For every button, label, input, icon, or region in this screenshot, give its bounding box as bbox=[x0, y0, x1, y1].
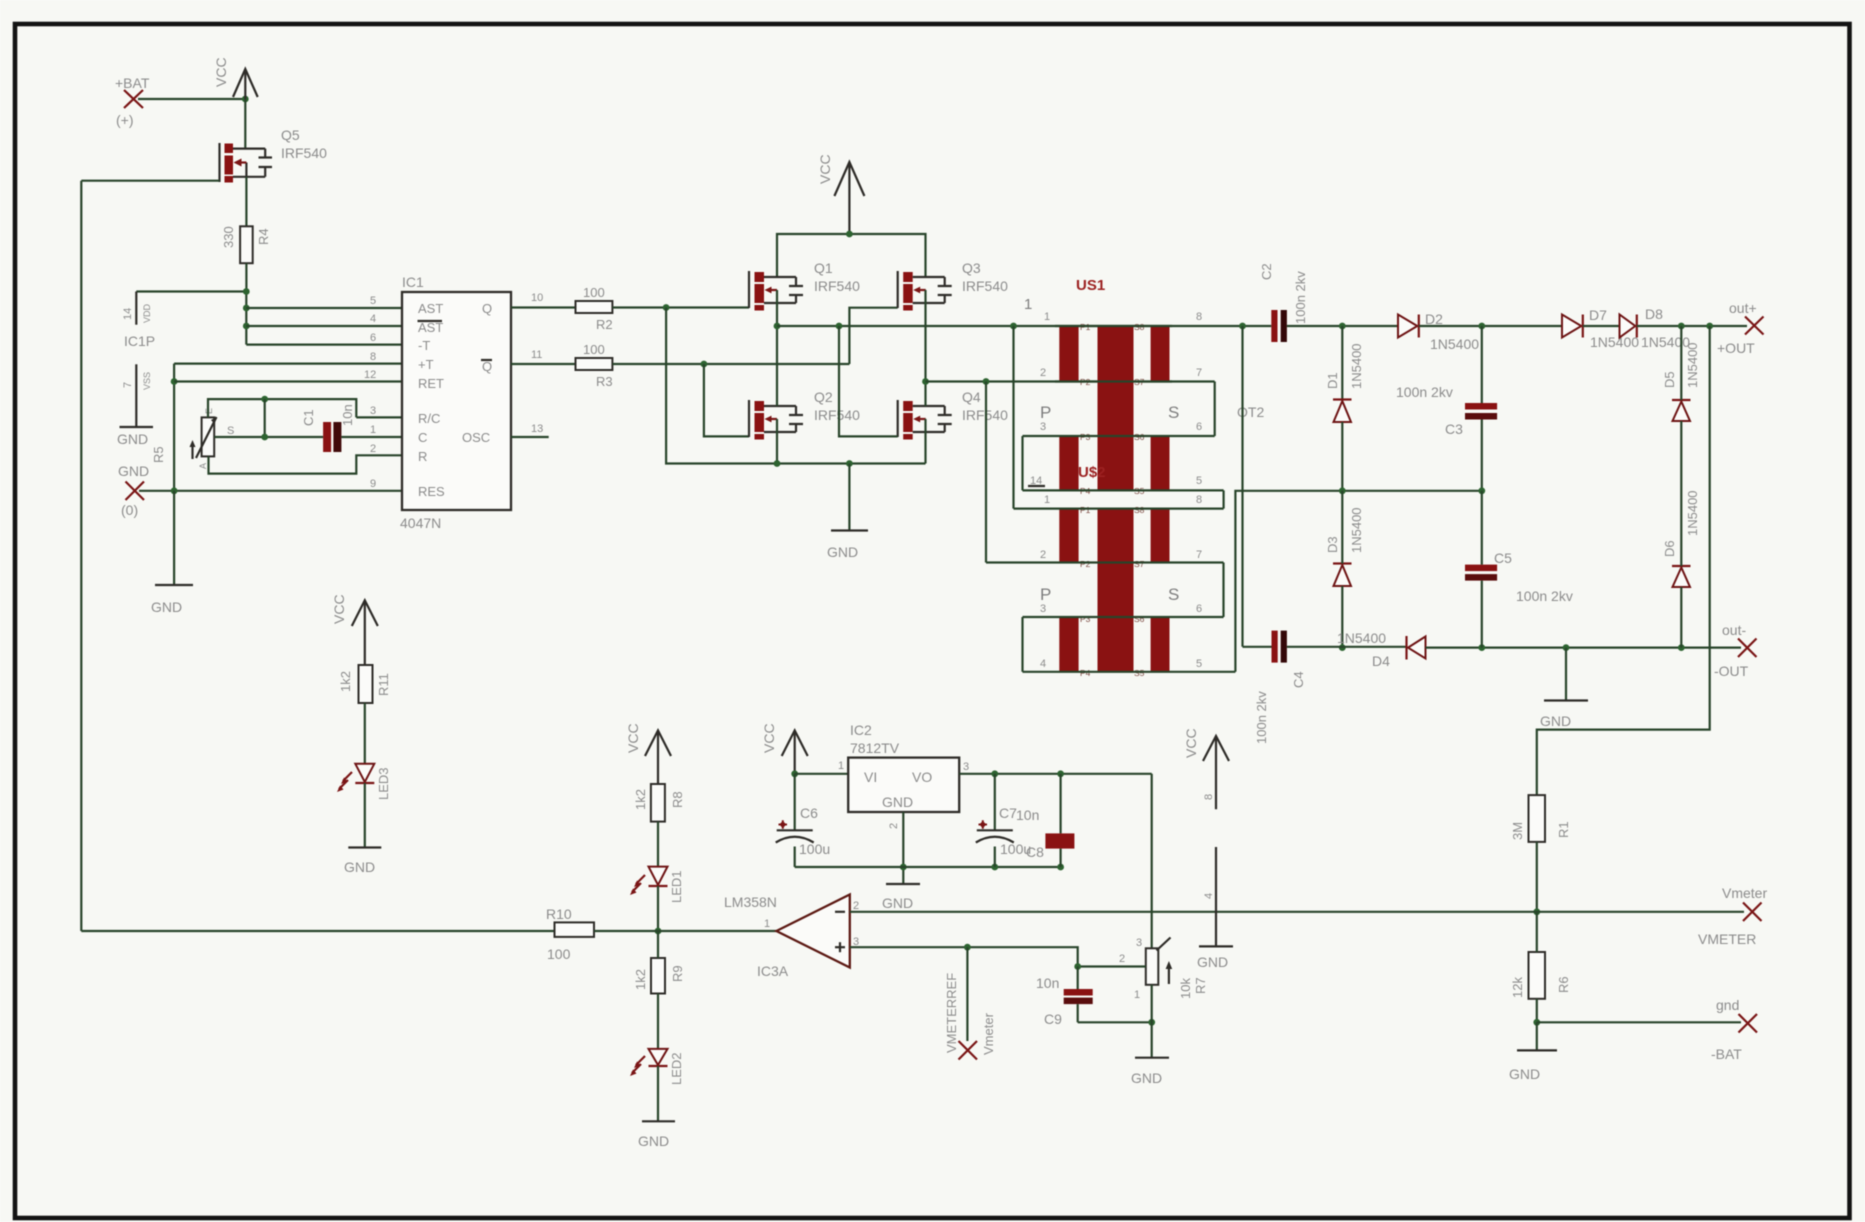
svg-text:1N5400: 1N5400 bbox=[1590, 334, 1639, 350]
svg-text:RES: RES bbox=[418, 484, 445, 499]
svg-text:10n: 10n bbox=[340, 404, 355, 426]
svg-text:GND: GND bbox=[117, 431, 148, 447]
svg-text:S8: S8 bbox=[1134, 505, 1145, 515]
wire vmeter row end bbox=[1537, 911, 1744, 913]
svg-text:P: P bbox=[1040, 403, 1051, 422]
wire U$2 row P3/S6 bbox=[1023, 616, 1224, 618]
wire gnd row bbox=[1537, 1021, 1741, 1023]
resistor R1 bbox=[1510, 795, 1571, 842]
wire R10 row left bbox=[81, 930, 554, 932]
wire VMETERREF stem bbox=[966, 947, 968, 1041]
ground (R6) bbox=[1509, 1050, 1557, 1082]
svg-text:Q: Q bbox=[482, 301, 492, 316]
svg-text:100n 2kv: 100n 2kv bbox=[1254, 691, 1269, 744]
svg-text:100: 100 bbox=[583, 285, 605, 300]
IC2 7812TV bbox=[848, 722, 959, 829]
svg-text:R3: R3 bbox=[596, 374, 613, 389]
capacitor C6 bbox=[776, 774, 830, 867]
svg-text:10: 10 bbox=[531, 292, 543, 304]
trimmer R5 bbox=[190, 408, 235, 469]
wire bottom rail (C6/C7/C8) bbox=[795, 866, 1061, 868]
svg-text:(+): (+) bbox=[116, 112, 134, 128]
transformer U$2 bbox=[1040, 464, 1202, 678]
wire phase A to second transformer bbox=[1012, 326, 1014, 509]
svg-text:1: 1 bbox=[1134, 989, 1140, 1001]
wire R3 to Q3 drive corner bbox=[612, 363, 849, 365]
svg-text:VMETERREF: VMETERREF bbox=[944, 973, 959, 1053]
svg-text:12: 12 bbox=[364, 369, 376, 381]
junction lower rail / gnd stem bbox=[846, 460, 853, 467]
wire IC1 pin 6 bbox=[246, 344, 402, 346]
svg-text:C6: C6 bbox=[800, 805, 818, 821]
svg-text:D2: D2 bbox=[1425, 311, 1443, 327]
wire R1 to vmeter row bbox=[1536, 842, 1538, 912]
svg-text:+T: +T bbox=[418, 357, 434, 372]
diode D4 bbox=[1337, 630, 1426, 669]
capacitor C5 bbox=[1465, 550, 1573, 604]
LED LED2 bbox=[630, 1049, 684, 1085]
svg-text:VCC: VCC bbox=[761, 723, 777, 753]
svg-text:LED2: LED2 bbox=[669, 1052, 684, 1085]
svg-text:VCC: VCC bbox=[625, 723, 641, 753]
svg-text:LED1: LED1 bbox=[669, 870, 684, 903]
svg-text:10n: 10n bbox=[1016, 807, 1039, 823]
svg-text:4: 4 bbox=[370, 313, 376, 325]
capacitor C1 bbox=[301, 404, 355, 452]
svg-text:IRF540: IRF540 bbox=[814, 407, 860, 423]
svg-text:Q4: Q4 bbox=[962, 389, 981, 405]
diode D3 bbox=[1325, 507, 1364, 586]
wire Q5 gate bbox=[81, 180, 219, 182]
svg-text:LM358N: LM358N bbox=[724, 894, 777, 910]
wire D8 to out+ bbox=[1637, 325, 1747, 327]
svg-text:GND: GND bbox=[882, 895, 913, 911]
node gnd / -BAT bbox=[1711, 997, 1757, 1062]
svg-text:1N5400: 1N5400 bbox=[1349, 343, 1364, 389]
svg-text:4047N: 4047N bbox=[400, 515, 441, 531]
resistor R3 bbox=[576, 342, 613, 389]
resistor R9 bbox=[633, 958, 685, 994]
svg-text:P2: P2 bbox=[1080, 559, 1091, 569]
svg-text:LED3: LED3 bbox=[376, 767, 391, 800]
wire op-amp pin 2 to VMETER bbox=[850, 911, 1537, 913]
svg-text:13: 13 bbox=[531, 423, 543, 435]
svg-text:6: 6 bbox=[370, 332, 376, 344]
svg-text:7: 7 bbox=[1196, 549, 1202, 561]
diode D1 bbox=[1325, 343, 1364, 422]
power VCC (IC2) bbox=[761, 723, 808, 773]
svg-text:Q: Q bbox=[482, 359, 492, 374]
svg-text:1N5400: 1N5400 bbox=[1685, 490, 1700, 536]
svg-text:-BAT: -BAT bbox=[1711, 1046, 1742, 1062]
wire trimmer top to R/C row bbox=[208, 399, 356, 417]
capacitor C3 bbox=[1396, 384, 1497, 437]
svg-text:S: S bbox=[1168, 585, 1179, 604]
svg-text:1: 1 bbox=[838, 760, 844, 772]
svg-text:GND: GND bbox=[344, 859, 375, 875]
wire Q5 source to R4 bbox=[245, 177, 247, 227]
svg-text:2: 2 bbox=[888, 823, 900, 829]
wire C4 row bbox=[1243, 646, 1407, 648]
svg-text:2: 2 bbox=[1119, 953, 1125, 965]
svg-text:7: 7 bbox=[1196, 367, 1202, 379]
svg-text:11: 11 bbox=[531, 349, 542, 361]
svg-text:R7: R7 bbox=[1193, 977, 1208, 994]
wire C2/C4 shared column bbox=[1241, 326, 1243, 647]
svg-text:330: 330 bbox=[221, 226, 236, 248]
svg-text:U$2: U$2 bbox=[1078, 464, 1106, 481]
svg-text:out+: out+ bbox=[1729, 300, 1757, 316]
svg-text:100u: 100u bbox=[799, 841, 830, 857]
svg-text:GND: GND bbox=[1197, 954, 1228, 970]
wire US1 S5 to U$2 S8 link bbox=[1222, 490, 1224, 508]
power VCC (top left) bbox=[213, 57, 258, 99]
svg-text:9: 9 bbox=[370, 478, 376, 490]
svg-text:C9: C9 bbox=[1044, 1011, 1062, 1027]
svg-text:GND: GND bbox=[827, 544, 858, 560]
wire +BAT to VCC column bbox=[138, 98, 245, 100]
wire vertical pins 8/12/9 bbox=[173, 364, 175, 491]
svg-text:+BAT: +BAT bbox=[115, 75, 150, 91]
svg-text:R4: R4 bbox=[256, 228, 271, 245]
svg-text:1N5400: 1N5400 bbox=[1337, 630, 1386, 646]
wire US1 S7-S6 link bbox=[1214, 382, 1216, 437]
wire phase B overlay across US1 bars bbox=[1055, 380, 1172, 382]
svg-text:R8: R8 bbox=[670, 791, 685, 808]
svg-text:8: 8 bbox=[1203, 794, 1215, 800]
wire D1 to mid row bbox=[1341, 422, 1343, 491]
node out+ bbox=[1717, 300, 1764, 356]
wire IC1 pin 11 to R3 bbox=[511, 363, 576, 365]
svg-text:3: 3 bbox=[1040, 603, 1046, 615]
svg-text:GND: GND bbox=[1540, 713, 1571, 729]
svg-text:VCC: VCC bbox=[1183, 728, 1199, 758]
diode D5 bbox=[1662, 342, 1700, 421]
svg-text:IC1P: IC1P bbox=[124, 333, 155, 349]
wire IC1 pin 9 (RES row) bbox=[139, 490, 402, 492]
svg-text:VO: VO bbox=[912, 769, 932, 785]
svg-text:7812TV: 7812TV bbox=[850, 740, 900, 756]
node +BAT bbox=[115, 75, 150, 128]
svg-text:R: R bbox=[418, 449, 427, 464]
resistor R11 bbox=[338, 665, 391, 703]
svg-text:D1: D1 bbox=[1325, 372, 1340, 389]
wire LED1 to junction bbox=[657, 886, 659, 931]
power VCC (bridge) bbox=[817, 154, 864, 234]
svg-text:Q3: Q3 bbox=[962, 260, 981, 276]
capacitor C2 bbox=[1259, 263, 1308, 342]
svg-text:3M: 3M bbox=[1510, 822, 1525, 840]
resistor R8 bbox=[633, 784, 685, 822]
ground (LED2) bbox=[638, 1121, 675, 1149]
capacitor C9 bbox=[1036, 967, 1093, 1028]
transistor Q5 bbox=[220, 127, 328, 183]
IC1P power pin VDD bbox=[122, 292, 155, 350]
power VCC (LM358) bbox=[1183, 728, 1229, 809]
svg-text:R5: R5 bbox=[151, 446, 166, 463]
svg-text:P1: P1 bbox=[1080, 505, 1091, 515]
svg-text:1N5400: 1N5400 bbox=[1349, 507, 1364, 553]
svg-text:gnd: gnd bbox=[1716, 997, 1739, 1013]
junction VI bbox=[791, 770, 798, 777]
wire VCC to IC2 VI bbox=[795, 773, 849, 775]
wire VDD row bbox=[136, 290, 246, 292]
wire to ground R6 bbox=[1536, 1022, 1538, 1050]
wire VCC to Q5 drain bbox=[244, 99, 246, 149]
svg-text:2: 2 bbox=[1040, 367, 1046, 379]
svg-text:R6: R6 bbox=[1556, 976, 1571, 993]
wire wiper row to C1 bbox=[214, 436, 323, 438]
transformer US1 bbox=[1024, 277, 1202, 496]
wire R8 to LED1 bbox=[657, 822, 659, 867]
svg-text:P4: P4 bbox=[1080, 668, 1091, 678]
svg-text:2: 2 bbox=[1040, 549, 1046, 561]
wire phase A overlay across US1 bars bbox=[1055, 325, 1172, 327]
svg-text:D4: D4 bbox=[1372, 653, 1390, 669]
wire D4 to out- bbox=[1426, 646, 1742, 648]
wire R4 to VDD row bbox=[245, 263, 247, 291]
svg-text:IC2: IC2 bbox=[850, 722, 872, 738]
svg-text:A: A bbox=[198, 463, 208, 469]
svg-text:100n 2kv: 100n 2kv bbox=[1516, 588, 1573, 604]
svg-text:1k2: 1k2 bbox=[338, 671, 353, 692]
svg-text:100n 2kv: 100n 2kv bbox=[1293, 271, 1308, 324]
svg-text:US1: US1 bbox=[1076, 277, 1105, 294]
svg-text:IRF540: IRF540 bbox=[814, 278, 860, 294]
junction trimmer top net bbox=[261, 396, 268, 403]
svg-text:S: S bbox=[227, 425, 234, 437]
wire D2 to D7 bbox=[1419, 325, 1562, 327]
svg-text:C2: C2 bbox=[1259, 263, 1274, 280]
svg-text:Q2: Q2 bbox=[814, 389, 833, 405]
svg-text:D3: D3 bbox=[1325, 536, 1340, 553]
diode D8 bbox=[1620, 306, 1691, 350]
wire IC2 gnd stem bbox=[902, 812, 904, 884]
svg-text:OT2: OT2 bbox=[1237, 404, 1264, 420]
wire LED3 to ground bbox=[364, 783, 366, 848]
svg-text:4: 4 bbox=[1203, 893, 1215, 899]
wire IC1 pin 5 bbox=[246, 307, 402, 309]
svg-text:IRF540: IRF540 bbox=[281, 145, 327, 161]
resistor R10 bbox=[546, 906, 594, 962]
resistor R6 bbox=[1510, 952, 1571, 999]
svg-text:1k2: 1k2 bbox=[633, 969, 648, 990]
svg-text:10k: 10k bbox=[1178, 978, 1193, 999]
svg-text:IRF540: IRF540 bbox=[962, 278, 1008, 294]
wire US1 row P4/S5 bbox=[1023, 489, 1224, 491]
capacitor C7 bbox=[976, 774, 1044, 867]
power VCC (R8) bbox=[625, 723, 671, 784]
svg-text:100n 2kv: 100n 2kv bbox=[1396, 384, 1453, 400]
wire IC1 pin 8 bbox=[174, 363, 402, 365]
svg-text:AST: AST bbox=[418, 320, 443, 335]
wire VCC rail of bridge bbox=[777, 234, 926, 277]
wire phase B row bbox=[926, 380, 1215, 382]
svg-text:S6: S6 bbox=[1134, 614, 1145, 624]
svg-text:8: 8 bbox=[370, 351, 376, 363]
svg-text:C: C bbox=[418, 430, 427, 445]
svg-text:out-: out- bbox=[1722, 622, 1746, 638]
svg-text:C1: C1 bbox=[301, 409, 316, 426]
svg-text:7: 7 bbox=[122, 382, 134, 388]
wire U$2 S5 riser to doubler bbox=[1235, 491, 1481, 672]
svg-text:3: 3 bbox=[1040, 421, 1046, 433]
svg-text:3: 3 bbox=[963, 761, 969, 773]
svg-text:C3: C3 bbox=[1445, 421, 1463, 437]
svg-text:14: 14 bbox=[122, 308, 134, 320]
svg-text:IC3A: IC3A bbox=[757, 963, 789, 979]
wire U$2 S7-S6 link bbox=[1222, 563, 1224, 618]
wire R9 leads bbox=[657, 931, 659, 1049]
svg-text:1k2: 1k2 bbox=[633, 789, 648, 810]
LED LED1 bbox=[630, 867, 684, 903]
wire U$2 row P1/S8 bbox=[1014, 508, 1224, 510]
LED LED3 bbox=[337, 764, 391, 800]
diode D2 bbox=[1398, 311, 1479, 352]
node VMETERREF / Vmeter bbox=[944, 973, 996, 1060]
wire U$2 row P4/S5 bbox=[1023, 671, 1236, 673]
ground (R7/C9) bbox=[1131, 1058, 1169, 1086]
wire wiper link bbox=[264, 399, 266, 437]
wire D3 column bbox=[1341, 491, 1343, 648]
svg-text:R2: R2 bbox=[596, 317, 613, 332]
svg-text:Vmeter: Vmeter bbox=[981, 1012, 996, 1055]
wire gnd stem bridge bbox=[848, 464, 850, 531]
svg-text:5: 5 bbox=[370, 295, 376, 307]
svg-text:R/C: R/C bbox=[418, 411, 440, 426]
svg-text:R11: R11 bbox=[376, 673, 391, 696]
svg-text:GND: GND bbox=[118, 463, 149, 479]
svg-text:8: 8 bbox=[1196, 311, 1202, 323]
svg-text:D7: D7 bbox=[1589, 307, 1607, 323]
svg-text:1: 1 bbox=[764, 918, 770, 930]
wire U$2 row P2/S7 bbox=[986, 561, 1224, 563]
wire D1 column top bbox=[1341, 326, 1343, 400]
svg-text:1: 1 bbox=[1044, 494, 1050, 506]
svg-text:6: 6 bbox=[1196, 421, 1202, 433]
wire VDD column to IC1 pins bbox=[245, 292, 247, 345]
wire op-amp pin 3 row bbox=[850, 947, 1078, 966]
op-amp IC3A bbox=[724, 894, 859, 979]
svg-text:+OUT: +OUT bbox=[1717, 340, 1755, 356]
wire LED2 to ground bbox=[657, 1066, 659, 1121]
node Vmeter bbox=[1698, 885, 1767, 947]
ground (bridge) bbox=[827, 531, 868, 561]
svg-text:3: 3 bbox=[370, 405, 376, 417]
wire D5/D6 column bbox=[1680, 326, 1682, 648]
svg-text:-T: -T bbox=[418, 338, 430, 353]
wire gnd stem (doubler) bbox=[1565, 648, 1567, 701]
junction VDD bbox=[243, 288, 250, 295]
svg-text:Q5: Q5 bbox=[281, 127, 300, 143]
IC1P power pin VSS bbox=[122, 364, 152, 427]
svg-text:(0): (0) bbox=[121, 502, 138, 518]
node (0) GND input bbox=[118, 463, 149, 518]
svg-text:VSS: VSS bbox=[142, 372, 152, 390]
svg-text:1: 1 bbox=[1044, 311, 1050, 323]
wire IC1 pin 2 to trimmer bottom bbox=[209, 455, 403, 473]
svg-text:C4: C4 bbox=[1291, 671, 1306, 688]
wire C9 bottom to pot bottom bbox=[1078, 1021, 1152, 1023]
svg-text:1N5400: 1N5400 bbox=[1641, 334, 1690, 350]
wire sense line out+ to R1 bbox=[1537, 326, 1710, 795]
svg-text:10n: 10n bbox=[1036, 975, 1059, 991]
svg-text:8: 8 bbox=[1196, 494, 1202, 506]
wire C5 column bbox=[1481, 491, 1483, 648]
diode D7 bbox=[1562, 307, 1639, 350]
wire Q3 gate drive bbox=[849, 308, 897, 364]
svg-text:IC1: IC1 bbox=[402, 274, 424, 290]
svg-text:R10: R10 bbox=[546, 906, 572, 922]
wire pot wiper to C9 node bbox=[1078, 965, 1146, 967]
svg-text:D6: D6 bbox=[1662, 540, 1677, 557]
wire US1 P3-P4 link bbox=[1021, 436, 1023, 490]
wire Q1 drain/source column bbox=[776, 290, 778, 464]
svg-text:5: 5 bbox=[1196, 475, 1202, 487]
svg-text:VCC: VCC bbox=[817, 154, 833, 184]
svg-text:100: 100 bbox=[547, 946, 571, 962]
wire IC1 pin 12 bbox=[174, 380, 402, 382]
wire US1 row P3/S6 bbox=[1023, 435, 1215, 437]
svg-text:C8: C8 bbox=[1026, 844, 1044, 860]
wire IC1 pin 10 to R2 bbox=[511, 306, 576, 308]
svg-text:VDD: VDD bbox=[142, 303, 152, 323]
wire R2 to Q1 gate bbox=[612, 306, 749, 308]
wire R11 to LED3 bbox=[364, 703, 366, 764]
wire IC2 VO row bbox=[959, 773, 1151, 775]
svg-text:1N5400: 1N5400 bbox=[1685, 342, 1700, 388]
svg-text:VI: VI bbox=[864, 769, 877, 785]
svg-text:Q1: Q1 bbox=[814, 260, 833, 276]
wire C1 to IC1 pin 1 bbox=[341, 436, 402, 438]
svg-text:OSC: OSC bbox=[462, 430, 490, 445]
wire R10 to op-amp output bbox=[594, 930, 776, 932]
svg-text:D8: D8 bbox=[1645, 306, 1663, 322]
svg-text:P: P bbox=[1040, 585, 1051, 604]
svg-text:1: 1 bbox=[370, 424, 376, 436]
wire pot bottom to ground bbox=[1151, 985, 1153, 1058]
node out- bbox=[1714, 622, 1757, 679]
ground (LM358) bbox=[1197, 946, 1233, 970]
wire Q3 drain/source column bbox=[924, 290, 926, 464]
svg-text:R1: R1 bbox=[1556, 821, 1571, 838]
trimmer R7 bbox=[1119, 937, 1208, 1001]
IC1 4047N bbox=[364, 274, 543, 531]
svg-text:D5: D5 bbox=[1662, 371, 1677, 388]
svg-text:GND: GND bbox=[1131, 1070, 1162, 1086]
wire IC1 pin 4 bbox=[246, 325, 402, 327]
svg-text:RET: RET bbox=[418, 376, 444, 391]
svg-text:GND: GND bbox=[1509, 1066, 1540, 1082]
svg-text:12k: 12k bbox=[1510, 977, 1525, 998]
wire VO down to pot R7 bbox=[1151, 774, 1153, 949]
svg-text:1: 1 bbox=[1024, 296, 1032, 313]
capacitor C8 bbox=[1045, 774, 1074, 867]
capacitor C4 bbox=[1254, 631, 1306, 744]
svg-text:2: 2 bbox=[370, 443, 376, 455]
wire IC1 pin 3 stub bbox=[356, 416, 402, 418]
wire phase A row bbox=[777, 325, 1271, 327]
transistor Q3 bbox=[898, 260, 1008, 311]
svg-text:GND: GND bbox=[638, 1133, 669, 1149]
svg-text:C7: C7 bbox=[999, 805, 1017, 821]
ground (below X 0) bbox=[151, 585, 193, 615]
svg-text:4: 4 bbox=[1040, 658, 1046, 670]
wire to lower ground bbox=[173, 491, 175, 585]
wire R6 leads bbox=[1536, 912, 1538, 1023]
ground IC1P bbox=[117, 427, 153, 447]
svg-text:VMETER: VMETER bbox=[1698, 931, 1756, 947]
